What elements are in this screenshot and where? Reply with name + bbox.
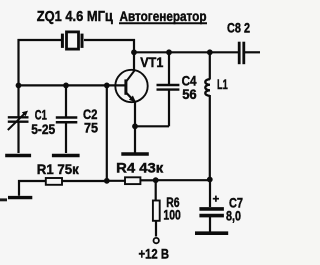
svg-text:C2: C2 bbox=[83, 107, 98, 122]
ground emitter bbox=[121, 152, 149, 155]
crystal ZQ1 bbox=[62, 32, 82, 49]
svg-text:ZQ1 4.6 МГц: ZQ1 4.6 МГц bbox=[37, 8, 114, 25]
ground C1 bbox=[5, 154, 31, 157]
plus sign of C7 bbox=[213, 196, 219, 202]
svg-text:100: 100 bbox=[163, 208, 180, 223]
variable capacitor C1 bbox=[8, 111, 29, 130]
svg-text:5-25: 5-25 bbox=[31, 122, 55, 137]
wire: left vertical (crystal left down through base bus to C1) bbox=[17, 39, 19, 117]
wire: C7 top lead bbox=[209, 180, 211, 208]
node dot C2 top bbox=[63, 83, 69, 89]
node dot R4/R6 bbox=[153, 177, 159, 183]
svg-text:Автогенератор: Автогенератор bbox=[120, 8, 207, 24]
svg-text:L1: L1 bbox=[217, 76, 228, 92]
node dot R1/R4 bbox=[104, 178, 110, 184]
wire: node to L1/C7 node bbox=[156, 179, 210, 181]
svg-text:R1 75к: R1 75к bbox=[37, 162, 79, 177]
svg-text:VT1: VT1 bbox=[140, 55, 163, 70]
wire: R1 left lead and down to ground bbox=[19, 181, 46, 196]
svg-text:+12 В: +12 В bbox=[139, 247, 170, 262]
wire: C1 bottom lead bbox=[17, 122, 19, 153]
transistor VT1 bbox=[115, 70, 147, 103]
wire: long vertical base node to R junction bbox=[106, 85, 108, 181]
wire: R6 bottom lead to terminal bbox=[155, 221, 157, 237]
svg-text:75: 75 bbox=[84, 121, 98, 136]
wire: R4 right lead bbox=[140, 179, 155, 181]
capacitor C2 bbox=[56, 118, 78, 123]
ground C7 bbox=[195, 231, 228, 235]
wire: C2 top lead bbox=[65, 85, 67, 116]
resistor R6 bbox=[153, 201, 160, 221]
wire: R4 left lead bbox=[107, 180, 125, 182]
wire: base bus horizontal bbox=[19, 84, 126, 86]
wire: collector vertical from crystal wire down to transistor bbox=[133, 39, 135, 70]
node dot base-right bbox=[104, 83, 110, 89]
wire: top-left horizontal to crystal bbox=[18, 39, 62, 41]
capacitor C4 bbox=[157, 85, 180, 90]
capacitor C8 bbox=[239, 42, 244, 64]
title underline bbox=[119, 22, 207, 24]
wire: R6 top lead bbox=[155, 180, 157, 200]
wire: top bus collector to C8 bbox=[134, 51, 238, 53]
svg-text:C1: C1 bbox=[35, 108, 47, 123]
node dot L1/C7 bbox=[207, 177, 213, 183]
svg-text:R4 43к: R4 43к bbox=[116, 161, 163, 176]
wire: C8 right out bbox=[245, 51, 260, 53]
wire: crystal to right corner bbox=[84, 39, 135, 41]
node dot base-left bbox=[16, 83, 22, 89]
resistor R4 bbox=[125, 177, 140, 184]
wire: C7 bottom lead to ground bbox=[209, 217, 211, 232]
resistor R1 bbox=[46, 178, 62, 185]
wire: C4 bottom lead bbox=[168, 90, 170, 126]
wire: C4 top lead bbox=[168, 52, 170, 84]
wire: C2 bottom lead bbox=[65, 123, 67, 154]
inductor L1 bbox=[205, 79, 210, 96]
svg-text:C8 2: C8 2 bbox=[227, 21, 250, 36]
svg-text:56: 56 bbox=[182, 87, 197, 102]
node dot L1 top bbox=[207, 49, 213, 55]
svg-text:8,0: 8,0 bbox=[226, 209, 241, 224]
capacitor C7 polarized bbox=[199, 209, 224, 216]
wire: L1 bottom lead to node bbox=[209, 95, 211, 180]
wire: L1 top lead bbox=[209, 52, 211, 79]
ground R1 bbox=[8, 196, 32, 199]
node dot emitter bbox=[132, 123, 138, 129]
wire: R1 right lead bbox=[62, 180, 107, 182]
terminal +12V circle bbox=[154, 238, 159, 243]
edge artifact marks bbox=[0, 198, 7, 201]
node dot C4 top bbox=[166, 49, 172, 55]
ground C2 bbox=[52, 154, 80, 157]
wire: emitter node to C4 bottom bbox=[135, 125, 169, 127]
wire: emitter vertical down to ground bbox=[134, 102, 136, 153]
node dot collector bbox=[131, 49, 137, 55]
